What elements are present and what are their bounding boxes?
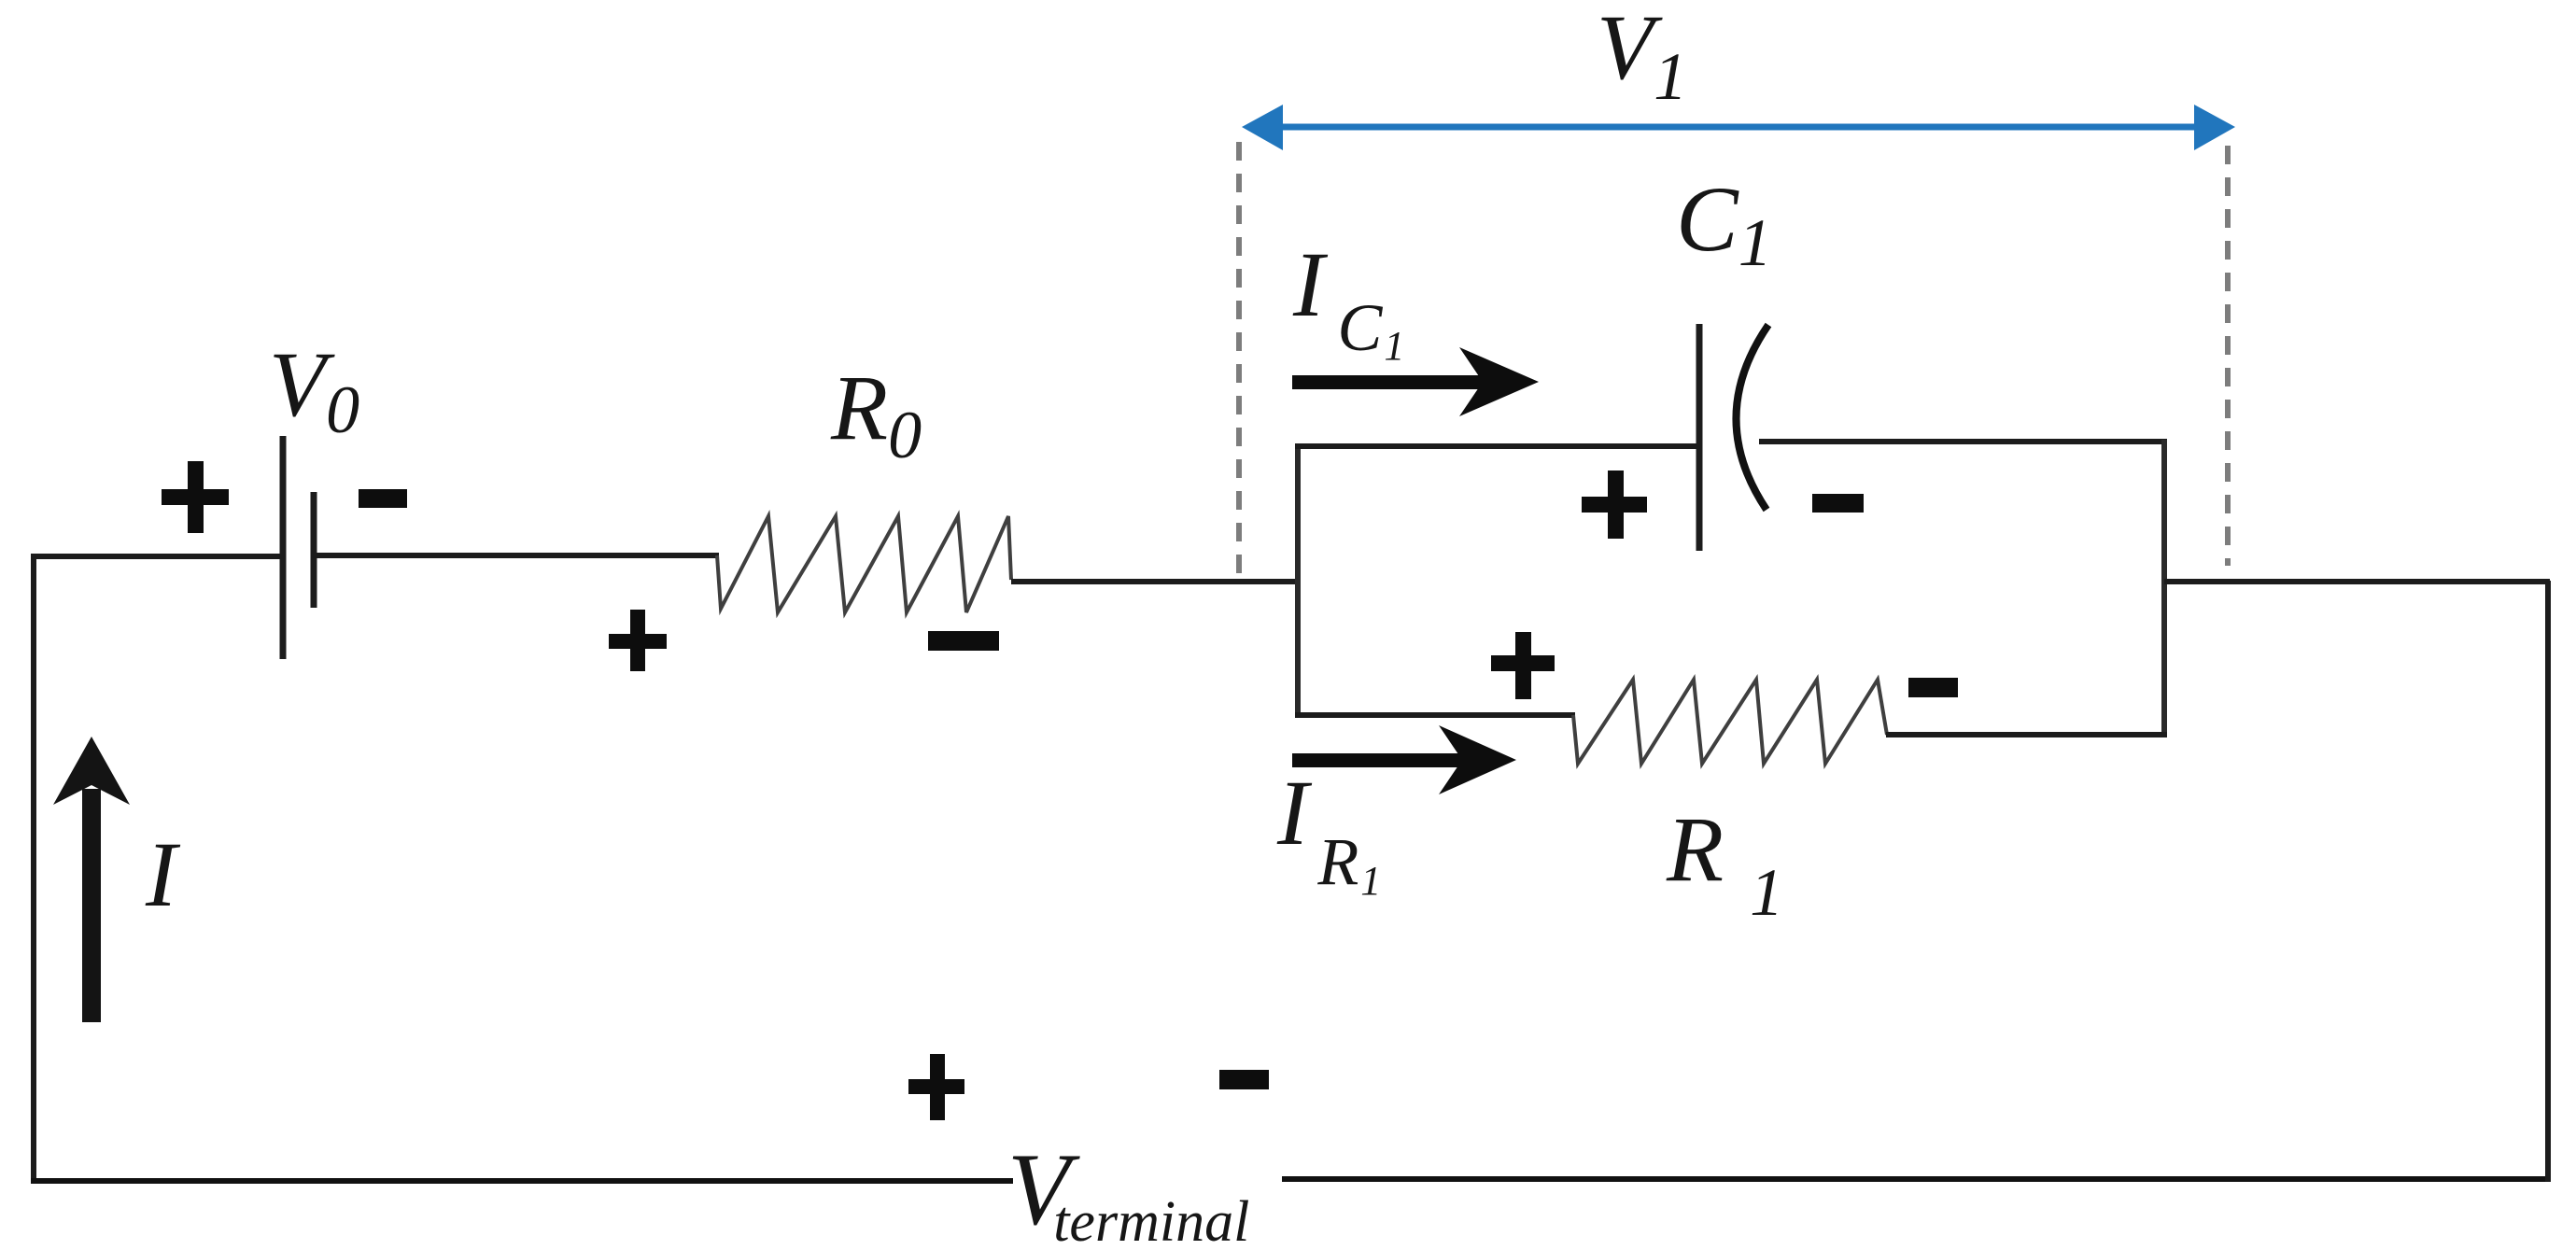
current arrow I (up): [53, 737, 130, 1022]
wire bottom left segment: [31, 1178, 1013, 1184]
capacitor C1 right plate (curved): [1736, 325, 1768, 510]
polarity - (C1): [1812, 494, 1864, 513]
wire C1 branch right: [1759, 439, 2167, 444]
capacitor C1 left plate: [1696, 324, 1703, 551]
polarity - (R0): [928, 631, 999, 651]
polarity - (V terminal): [1219, 1070, 1269, 1089]
svg-text:IC1: IC1: [1292, 232, 1404, 369]
wire top left to battery: [31, 554, 280, 559]
svg-text:C1: C1: [1676, 167, 1772, 280]
polarity + (R1): [1491, 632, 1555, 699]
polarity + (R0): [609, 610, 667, 671]
polarity + (V terminal): [908, 1054, 964, 1120]
wire bottom right segment: [1282, 1176, 2551, 1182]
wire left vertical: [31, 554, 36, 1183]
current arrow I_R1 (right): [1292, 725, 1516, 794]
wire right vertical: [2545, 581, 2551, 1182]
node RC box right edge: [2161, 440, 2167, 737]
dashed node line right: [2225, 146, 2231, 566]
wire R1 branch right: [1886, 732, 2167, 737]
svg-text:R1: R1: [1666, 797, 1783, 930]
wire battery to R0: [317, 553, 719, 558]
wire C1 branch left: [1295, 443, 1699, 449]
dashed node line left: [1236, 142, 1242, 579]
svg-text:Vterminal: Vterminal: [1007, 1132, 1249, 1250]
resistor R0: [717, 516, 1011, 612]
polarity + (battery V0): [162, 461, 229, 533]
wire RC block to right vertical: [2164, 579, 2550, 584]
node RC box left edge: [1295, 445, 1301, 718]
polarity + (C1): [1582, 471, 1647, 539]
battery V0 plates: [283, 436, 314, 659]
V1 measurement arrow (blue): [1242, 105, 2235, 150]
wire R0 to RC block: [1011, 579, 1300, 584]
svg-text:V0: V0: [269, 332, 359, 447]
svg-text:IR1: IR1: [1276, 761, 1381, 904]
current arrow I_C1 (right): [1292, 347, 1539, 416]
wire R1 branch left: [1295, 712, 1575, 718]
svg-text:I: I: [145, 822, 181, 926]
polarity - (R1): [1908, 678, 1958, 697]
svg-text:R0: R0: [830, 356, 922, 472]
polarity - (battery V0): [359, 489, 407, 508]
svg-text:V1: V1: [1597, 0, 1687, 114]
resistor R1: [1573, 680, 1887, 764]
